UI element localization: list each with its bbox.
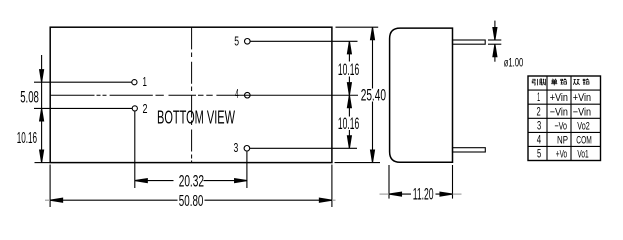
table header 引脚 bbox=[532, 79, 537, 85]
dimension phi 1.00 lines bbox=[494, 21, 496, 40]
pin 3 extension line down bbox=[246, 152, 248, 188]
pin 5 pad circle bbox=[245, 39, 251, 45]
dimension 10.16 left arrow down bbox=[40, 150, 44, 163]
dimension 10.16 left arrow up bbox=[40, 108, 44, 121]
top edge right extension bbox=[336, 26, 379, 28]
dimension 25.40 line bbox=[372, 27, 374, 88]
pin 2 extension line down bbox=[134, 112, 136, 189]
pin 3 lead line bbox=[250, 147, 357, 149]
dimension 5.08 arrow down bbox=[40, 70, 44, 83]
svg-text:20.32: 20.32 bbox=[179, 172, 204, 191]
svg-text:+Vin: +Vin bbox=[573, 92, 591, 104]
svg-text:5: 5 bbox=[234, 34, 239, 49]
svg-text:+Vo: +Vo bbox=[556, 149, 567, 161]
svg-text:25.40: 25.40 bbox=[361, 85, 386, 104]
left edge extension down bbox=[49, 165, 51, 208]
svg-text:3: 3 bbox=[234, 140, 239, 155]
dimension 20.32 line bbox=[135, 180, 174, 182]
phi extension ticks bbox=[488, 39, 501, 41]
pin 2 lead line bbox=[34, 107, 132, 109]
svg-text:NP: NP bbox=[557, 135, 568, 147]
svg-text:1: 1 bbox=[537, 92, 540, 104]
svg-text:4: 4 bbox=[537, 135, 542, 147]
svg-text:11.20: 11.20 bbox=[413, 184, 434, 203]
side view body bbox=[390, 28, 453, 162]
dimension 11.20 extension lines bbox=[388, 165, 390, 199]
svg-text:5: 5 bbox=[537, 149, 541, 161]
svg-text:10.16: 10.16 bbox=[17, 130, 37, 147]
pin table grid bbox=[528, 76, 601, 161]
svg-text:10.16: 10.16 bbox=[338, 60, 359, 79]
svg-text:50.80: 50.80 bbox=[179, 193, 204, 210]
bottom edge left extension bbox=[35, 162, 51, 164]
vertical center line bbox=[191, 27, 193, 162]
svg-text:−Vin: −Vin bbox=[573, 106, 591, 118]
pin 4 pad circle bbox=[245, 92, 251, 98]
svg-text:+Vin: +Vin bbox=[550, 92, 568, 104]
dimension 5.08 line bbox=[41, 55, 43, 163]
svg-text:Vo2: Vo2 bbox=[577, 120, 589, 132]
table header 单路 bbox=[551, 79, 557, 86]
svg-text:2: 2 bbox=[143, 101, 148, 116]
svg-text:COM: COM bbox=[576, 135, 592, 147]
svg-text:ø1.00: ø1.00 bbox=[504, 57, 524, 69]
svg-text:10.16: 10.16 bbox=[338, 114, 359, 133]
side view bottom pin bbox=[453, 148, 486, 152]
horizontal center line (pin 4 row) bbox=[50, 94, 358, 96]
side view top pin bbox=[453, 40, 486, 44]
pin 3 pad circle bbox=[244, 146, 250, 152]
dimension 50.80 line bbox=[50, 199, 177, 201]
bottom edge right extension bbox=[335, 162, 381, 164]
table header 双路 bbox=[573, 79, 579, 84]
svg-text:−Vo: −Vo bbox=[555, 120, 568, 132]
dimension 10.16 right lower line bbox=[348, 95, 350, 116]
svg-text:Vo1: Vo1 bbox=[577, 149, 588, 161]
svg-text:1: 1 bbox=[143, 74, 147, 89]
pin 2 pad circle bbox=[132, 106, 137, 111]
pin 1 pad circle bbox=[132, 80, 137, 85]
dimension 11.20 line bbox=[389, 193, 411, 195]
svg-text:4: 4 bbox=[235, 86, 239, 101]
svg-text:5.08: 5.08 bbox=[20, 87, 39, 106]
right edge extension down bbox=[331, 165, 333, 208]
pin 5 lead line bbox=[250, 40, 357, 42]
svg-text:3: 3 bbox=[537, 120, 541, 132]
main outline (bottom view body) bbox=[50, 27, 332, 162]
svg-text:BOTTOM VIEW: BOTTOM VIEW bbox=[157, 107, 235, 127]
dimension 10.16 right upper line bbox=[348, 41, 350, 61]
svg-text:2: 2 bbox=[537, 106, 541, 118]
pin 1 lead line bbox=[34, 81, 132, 83]
svg-text:−Vin: −Vin bbox=[550, 106, 568, 118]
